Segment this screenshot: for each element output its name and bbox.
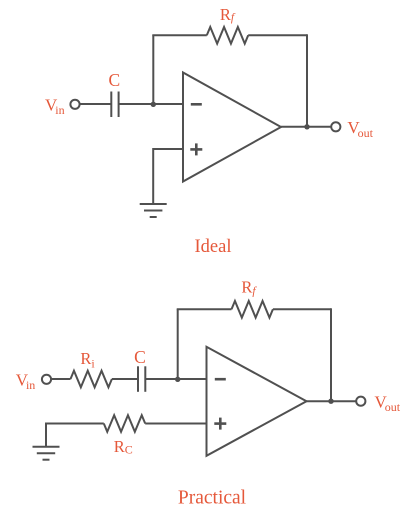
terminal Vout (ideal)	[331, 122, 340, 131]
node output junction (ideal)	[304, 124, 309, 129]
wire feedback rail right segment	[273, 308, 331, 310]
capacitor C (practical)	[138, 366, 145, 392]
wire RC to ground corner	[46, 424, 104, 447]
resistor Rf (practical)	[232, 301, 273, 318]
svg-text:Vin: Vin	[16, 370, 36, 392]
wire junction up to feedback rail	[152, 35, 154, 104]
wire feedback rail right segment	[248, 34, 307, 36]
resistor Rf (ideal)	[207, 27, 248, 44]
terminal Vin (ideal)	[70, 100, 79, 109]
wire C to inverting input node	[145, 378, 206, 380]
svg-text:C: C	[108, 70, 120, 90]
ground (practical)	[33, 447, 60, 460]
wire junction up to feedback rail	[177, 309, 179, 379]
svg-text:RC: RC	[114, 437, 133, 457]
op-amp U1 non-inverting pin marker +	[190, 143, 202, 155]
terminal Vout (practical)	[356, 397, 365, 406]
wire Vin to resistor Ri	[51, 378, 70, 380]
wire feedback down to output node	[306, 34, 308, 127]
op-amp U2 non-inverting pin marker +	[214, 418, 226, 430]
svg-text:Rf: Rf	[220, 5, 236, 24]
wire feedback rail left segment	[177, 308, 232, 310]
op-amp U1 inverting pin marker -	[191, 103, 202, 106]
node inverting-input junction (practical)	[175, 377, 180, 382]
wire op-amp output to terminal	[307, 400, 357, 402]
svg-text:C: C	[134, 347, 146, 367]
svg-text:Vout: Vout	[347, 118, 373, 140]
node inverting-input junction (ideal)	[151, 102, 156, 107]
op-amp U2 inverting pin marker -	[215, 378, 226, 381]
capacitor C (ideal)	[111, 92, 118, 118]
op-amp U1 triangle (ideal)	[183, 73, 281, 182]
wire Vin to capacitor C	[80, 103, 112, 105]
svg-text:Vout: Vout	[375, 393, 401, 415]
svg-text:Ideal: Ideal	[195, 237, 232, 257]
ground (ideal)	[140, 204, 167, 217]
node output junction (practical)	[328, 399, 333, 404]
op-amp U2 triangle (practical)	[207, 347, 307, 456]
wire non-inverting input to resistor RC	[145, 423, 206, 425]
wire feedback down to output node	[330, 308, 332, 401]
wire Ri to capacitor C	[112, 378, 138, 380]
terminal Vin (practical)	[42, 375, 51, 384]
wire non-inverting input to ground corner	[153, 149, 183, 204]
resistor RC (practical)	[104, 415, 145, 432]
svg-text:Rf: Rf	[241, 278, 257, 298]
svg-text:Practical: Practical	[178, 487, 247, 508]
wire op-amp output to terminal	[281, 126, 331, 128]
svg-text:Vin: Vin	[45, 95, 65, 117]
wire C to inverting input node	[119, 103, 183, 105]
svg-text:Ri: Ri	[80, 349, 95, 370]
wire feedback rail left segment	[152, 34, 207, 36]
resistor Ri (practical)	[71, 371, 112, 388]
